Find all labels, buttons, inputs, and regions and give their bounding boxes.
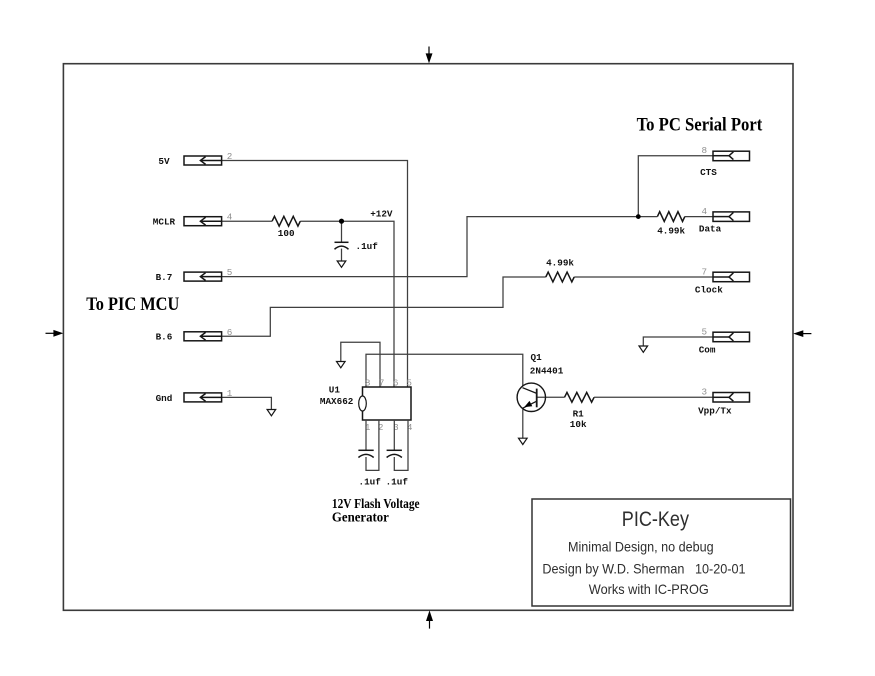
capacitor C1 .1uf (at +12V) [335,242,349,249]
svg-text:4.99k: 4.99k [657,226,685,237]
svg-text:Works with IC-PROG: Works with IC-PROG [589,581,709,597]
wire Data resistor to connector [638,216,657,218]
svg-text:1: 1 [227,388,233,399]
wire B.7 to Data [222,217,639,277]
wire U1 pin7 ground hook [341,342,380,387]
right border arrow [793,330,811,337]
svg-text:R1: R1 [573,409,585,420]
svg-text:Design by W.D. Sherman 10-20: Design by W.D. Sherman 10-20-01 [542,561,745,577]
left border arrow [46,330,64,337]
transistor Q1 2N4401 [517,383,545,411]
connector Com pin5 [713,332,750,342]
svg-text:U1: U1 [329,385,341,396]
wire Gnd connector to ground [222,397,272,409]
svg-text:B.7: B.7 [156,272,173,283]
svg-text:B.6: B.6 [156,332,173,343]
svg-text:2N4401: 2N4401 [530,366,564,377]
connector Gnd pin1 [184,393,222,402]
wire 5V row [222,161,408,388]
wire B.6 to Clock resistor [222,277,546,336]
bottom border arrow [426,610,433,628]
wire C1 top stub [341,221,343,242]
capacitor C3 .1uf plates [387,450,402,457]
svg-text:2: 2 [227,151,233,162]
capacitor C2 .1uf plates [358,450,373,457]
svg-text:Minimal Design, no debug: Minimal Design, no debug [568,539,714,555]
svg-text:5: 5 [702,326,708,337]
svg-text:Generator: Generator [332,510,389,525]
svg-text:.1uf: .1uf [359,476,382,487]
svg-text:10k: 10k [570,419,587,430]
svg-text:Clock: Clock [695,285,723,296]
svg-text:To PC Serial Port: To PC Serial Port [637,115,763,136]
wire C1 bottom stub [341,249,343,261]
svg-text:6: 6 [393,379,398,389]
connector B.7 pin5 [184,272,222,281]
svg-text:To PIC MCU: To PIC MCU [86,294,179,315]
top border arrow [426,47,433,64]
op U1 MAX662 IC body [359,387,411,420]
svg-text:100: 100 [278,228,295,239]
connector MCLR pin4 [184,217,222,226]
svg-text:3: 3 [702,387,708,398]
wire R1 to Vpp/Tx [594,396,713,398]
connector B.6 pin6 [184,332,222,341]
title block box [532,499,791,606]
svg-text:CTS: CTS [700,167,717,178]
node Data/CTS junction [636,214,641,219]
resistor R1 [565,392,595,402]
svg-text:5: 5 [407,379,412,389]
svg-text:Data: Data [699,224,722,235]
svg-text:Gnd: Gnd [156,393,173,404]
ground (U1 pin7) [337,362,346,368]
svg-text:4: 4 [227,212,233,223]
wire Q1 emitter to ground [522,409,524,438]
wire CTS [638,156,713,217]
wire C2 bottom / U1 pin2 loop [366,420,379,470]
svg-text:4.99k: 4.99k [546,258,574,269]
resistor 4.99k (Clock) [546,272,574,282]
resistor 4.99k (Data) [657,212,684,222]
ground (Com) [639,346,648,352]
wire U1 pin3 down [393,420,395,450]
connector Data pin4 [713,212,750,222]
wire MCLR left segment [222,220,273,222]
ground (Q1 emitter) [519,438,528,444]
connector Clock pin7 [713,272,750,282]
svg-text:PIC-Key: PIC-Key [622,508,690,531]
svg-text:8: 8 [702,145,708,156]
connector CTS pin8 [713,151,750,161]
svg-text:5: 5 [227,267,233,278]
wire +12V net [300,221,394,387]
svg-text:4: 4 [702,206,708,217]
svg-text:6: 6 [227,327,233,338]
svg-text:5V: 5V [158,156,170,167]
connector Vpp/Tx pin3 [713,393,750,403]
node +12V junction [339,219,344,224]
sheet border frame [63,64,793,611]
svg-text:+12V: +12V [370,209,393,220]
ground (Gnd connector) [267,410,276,416]
svg-text:Vpp/Tx: Vpp/Tx [698,406,732,417]
ground (C1) [337,261,346,267]
svg-text:.1uf: .1uf [356,241,379,252]
svg-text:7: 7 [702,267,708,278]
resistor 100 [272,216,300,226]
wire Clock resistor to connector [574,276,713,278]
svg-text:MAX662: MAX662 [320,396,354,407]
svg-text:7: 7 [379,379,384,389]
wire U1 pin8 to Q1 collector [366,354,523,387]
wire Q1 base to R1 [537,396,565,398]
wire U1 pin1 down [365,420,367,450]
wire Com to ground [643,337,713,346]
svg-text:8: 8 [365,379,370,389]
text 12V Flash Voltage Generator [332,496,420,525]
connector 5V pin2 [184,156,222,165]
svg-text:Q1: Q1 [531,352,543,363]
svg-text:MCLR: MCLR [153,217,176,228]
svg-text:.1uf: .1uf [386,476,409,487]
svg-text:Com: Com [699,344,716,355]
wire C3 bottom / U1 pin4 loop [394,420,408,470]
